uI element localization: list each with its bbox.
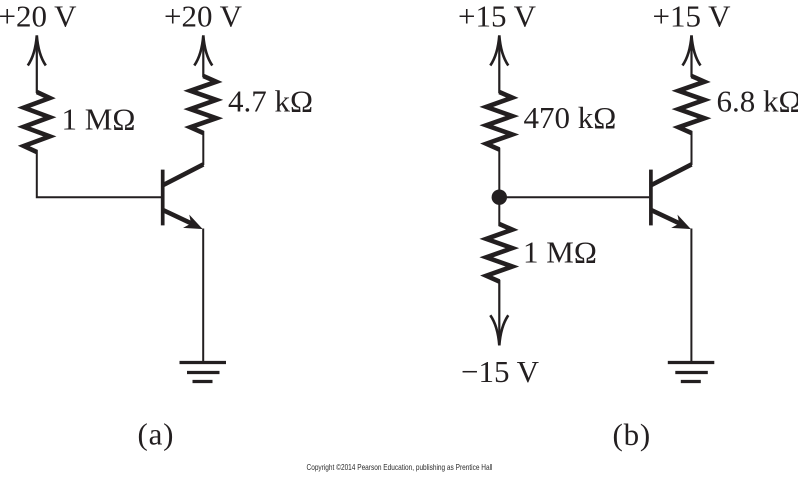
svg-text:470 kΩ: 470 kΩ — [524, 100, 617, 135]
resistor R1 1 MOhm zigzag — [24, 92, 50, 152]
supply arrow to +15 V (b) right — [683, 35, 701, 77]
svg-text:+20 V: +20 V — [0, 0, 77, 34]
svg-text:1 MΩ: 1 MΩ — [62, 102, 136, 137]
resistor R5 6.8 kOhm zigzag — [679, 76, 705, 133]
ground symbol (b) — [668, 363, 715, 382]
transistor Q2 base bar — [649, 170, 653, 226]
svg-text:(a): (a) — [138, 417, 175, 452]
svg-text:4.7 kΩ: 4.7 kΩ — [228, 84, 313, 119]
junction node dot — [492, 190, 507, 205]
svg-text:+15 V: +15 V — [653, 0, 732, 34]
transistor Q2 emitter stroke — [652, 210, 682, 224]
wire node to base of Q2 — [499, 196, 649, 198]
wire R1 bottom to base of Q1 — [37, 150, 161, 197]
svg-text:6.8 kΩ: 6.8 kΩ — [717, 84, 798, 119]
svg-text:+15 V: +15 V — [458, 0, 537, 34]
transistor Q1 collector stroke — [163, 164, 203, 185]
wire Q2 emitter to ground — [690, 229, 692, 362]
supply arrow down to -15 V — [490, 280, 508, 345]
wire R2 bottom to collector of Q1 — [202, 131, 204, 165]
svg-text:+20 V: +20 V — [164, 0, 243, 34]
resistor R4 1 MOhm zigzag — [486, 224, 512, 282]
transistor Q1 emitter stroke — [163, 210, 193, 224]
supply arrow to +20 V (a) left — [28, 35, 46, 93]
wire R5 bottom to collector of Q2 — [691, 131, 693, 165]
ground symbol (a) — [180, 363, 227, 382]
svg-text:(b): (b) — [613, 417, 652, 452]
transistor Q2 collector stroke — [652, 164, 692, 185]
wire R3 bottom through node to R4 top — [498, 148, 500, 226]
svg-text:1 MΩ: 1 MΩ — [523, 235, 597, 270]
transistor Q1 emitter arrowhead — [185, 216, 202, 228]
wire Q1 emitter to ground — [202, 229, 204, 362]
transistor Q1 base bar — [161, 170, 165, 226]
supply arrow to +15 V (b) left — [490, 35, 508, 93]
supply arrow to +20 V (a) right — [194, 35, 212, 77]
resistor R2 4.7 kOhm zigzag — [190, 76, 216, 133]
resistor R3 470 kOhm zigzag — [486, 92, 512, 150]
svg-text:−15 V: −15 V — [461, 354, 540, 389]
svg-text:Copyright ©2014 Pearson Educat: Copyright ©2014 Pearson Education, publi… — [307, 462, 493, 472]
transistor Q2 emitter arrowhead — [673, 216, 690, 228]
